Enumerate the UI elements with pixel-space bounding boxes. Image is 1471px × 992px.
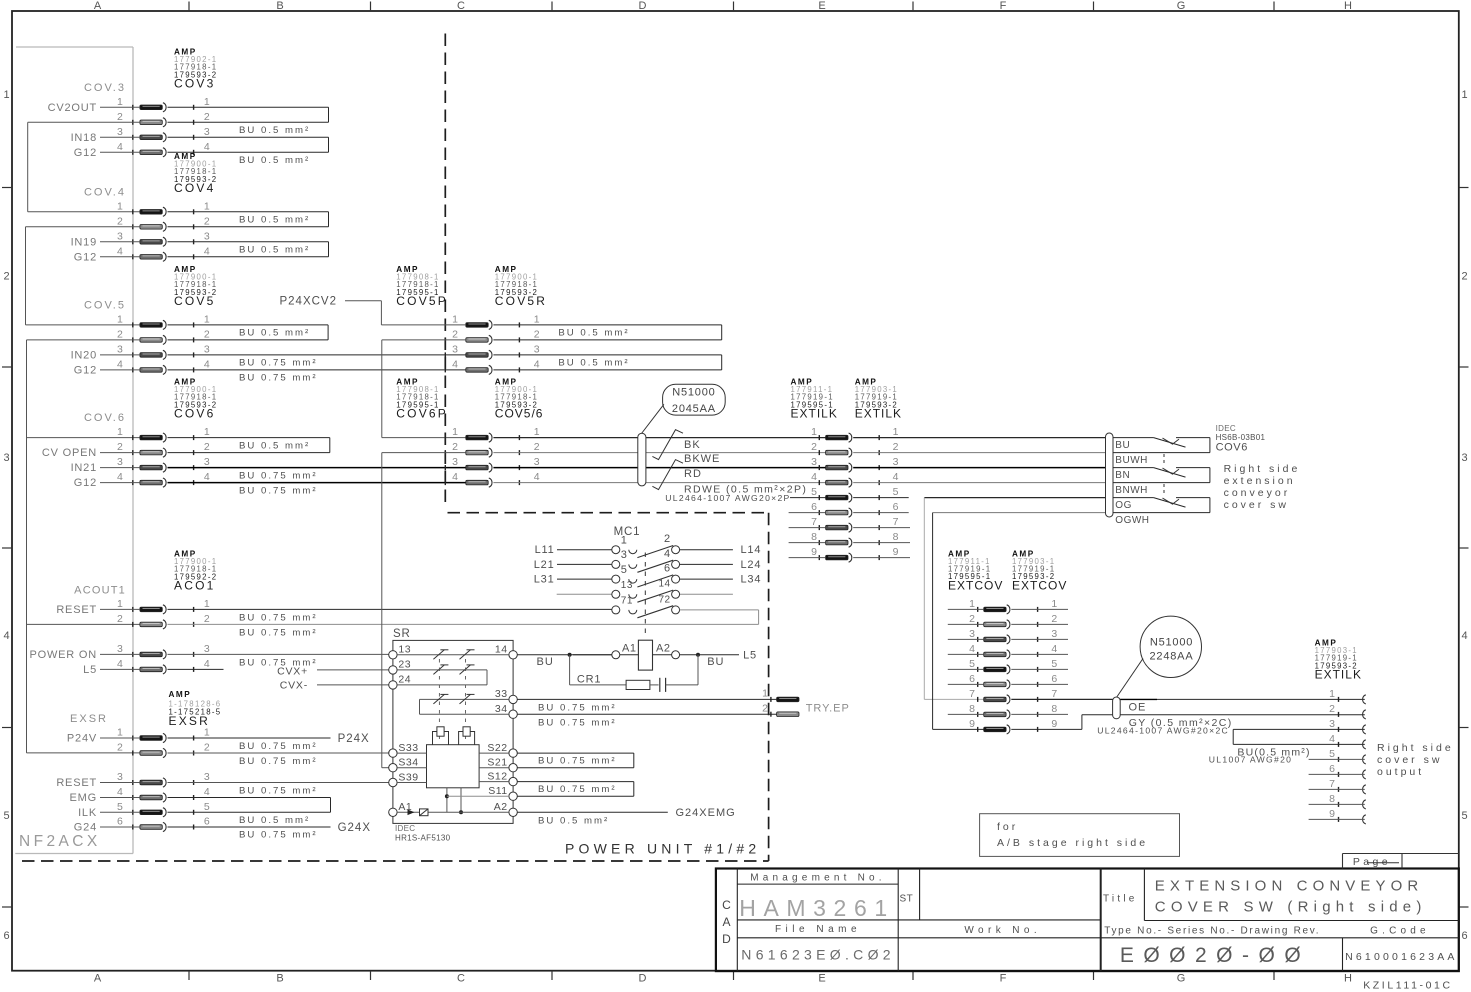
svg-text:1: 1: [534, 313, 540, 325]
svg-text:BU 0.75 mm²: BU 0.75 mm²: [239, 829, 318, 840]
wire G12 to COV3 pin4: [100, 151, 140, 153]
title block drawing title text: [1155, 877, 1427, 915]
connector pair EXTILK / EXTILK (AMP) 9 pins: [791, 378, 903, 563]
wire chain COV4 pin2 to COV5 pin1: [26, 227, 140, 325]
svg-text:5: 5: [1461, 810, 1467, 822]
connector COV5 (AMP) with pins 1-4: [117, 265, 217, 375]
svg-text:COV6: COV6: [174, 407, 215, 421]
net label OE: [1129, 702, 1147, 714]
svg-text:COV.5: COV.5: [84, 300, 126, 312]
connector pair COV6P / COV5/6 (AMP): [396, 378, 543, 488]
svg-text:4: 4: [3, 630, 9, 642]
svg-text:BU 0.5 mm²: BU 0.5 mm²: [239, 815, 310, 826]
label NF2ACX: [19, 833, 101, 850]
net label G24X: [338, 822, 371, 834]
wire net OG riser to EXTCOV pin7: [924, 498, 1105, 700]
relay SR element above module left: [433, 727, 449, 745]
node EMG: [70, 792, 97, 804]
svg-text:4: 4: [117, 786, 123, 798]
svg-text:3: 3: [3, 452, 9, 464]
relay SR wire A1 row with arrow and link symbol: [397, 809, 509, 816]
svg-text:2: 2: [117, 441, 123, 453]
wire EXSR pin1 to net P24X: [168, 737, 331, 739]
svg-text:9: 9: [1329, 808, 1335, 820]
svg-text:G24X: G24X: [338, 822, 371, 834]
wire SR A2 to net G24XEMG: [517, 811, 668, 813]
cable bundle capsule at switch COV6: [1106, 433, 1114, 517]
svg-text:4: 4: [1461, 630, 1467, 642]
switch contact COV6 sw3 (OG/OGWH): [1113, 498, 1210, 513]
svg-text:G12: G12: [74, 477, 97, 489]
wire net BK COV5/6 pin1 to EXTILK pin1: [493, 437, 825, 439]
svg-text:2045AA: 2045AA: [672, 403, 716, 415]
svg-text:3: 3: [117, 771, 123, 783]
svg-text:BU 0.5 mm²: BU 0.5 mm²: [239, 215, 310, 226]
svg-text:3: 3: [621, 549, 628, 561]
svg-text:L11: L11: [535, 544, 555, 556]
svg-text:BU 0.75 mm²: BU 0.75 mm²: [239, 785, 318, 796]
svg-text:EXTCOV: EXTCOV: [948, 578, 1003, 592]
svg-text:P24XCV2: P24XCV2: [279, 295, 337, 307]
wire EXSR pin2 to relay SR S33: [168, 752, 390, 754]
svg-text:33: 33: [495, 688, 508, 700]
wire IN18 to COV3 pin3: [100, 136, 140, 138]
svg-text:COV5P: COV5P: [396, 294, 448, 308]
wire color label BK: [684, 439, 701, 451]
svg-text:Right side: Right side: [1224, 463, 1301, 475]
svg-text:7: 7: [1329, 778, 1335, 790]
wire chain COV5 pin2 / COV6 pin1 / ACO1 pin2 / EXSR pin2: [27, 340, 140, 753]
title block drawing number E0020-00: [1120, 944, 1310, 967]
svg-text:A: A: [722, 915, 730, 929]
wire G12 to COV5 pin4: [100, 369, 140, 371]
net label P24XCV2: [279, 295, 337, 307]
svg-text:A2: A2: [494, 801, 508, 813]
node POWER ON: [29, 649, 97, 661]
title block CAD letters: [722, 898, 731, 946]
dashed box POWER UNIT right edge: [768, 513, 770, 861]
wire color label RDWE (0.5 mm2x2P): [684, 483, 807, 495]
contactor MC1 aux contact 71-72: [612, 594, 680, 618]
svg-text:Management No.: Management No.: [750, 872, 886, 883]
node CV OPEN: [42, 447, 97, 459]
svg-text:HR1S-AF5130: HR1S-AF5130: [395, 834, 451, 843]
svg-text:G: G: [1177, 973, 1186, 985]
svg-text:3: 3: [893, 456, 899, 468]
svg-text:23: 23: [398, 659, 411, 671]
svg-text:IDEC: IDEC: [395, 824, 415, 833]
value label BU 0.5 mm2 (COV3 3-4): [239, 155, 310, 166]
svg-text:3: 3: [117, 126, 123, 138]
value label BU 0.75 mm2 (EXSR pin1): [239, 741, 318, 752]
node G12 (COV5): [74, 364, 97, 376]
svg-text:G12: G12: [74, 147, 97, 159]
svg-text:24: 24: [398, 674, 411, 686]
relay SR right pins 14 33 34 S22 S21 S12 S11 A2: [487, 644, 517, 817]
svg-text:1: 1: [1461, 89, 1467, 101]
title block ST label: [900, 894, 914, 905]
svg-text:CV2OUT: CV2OUT: [48, 102, 97, 114]
svg-text:EXTILK: EXTILK: [791, 407, 838, 421]
svg-text:S11: S11: [488, 785, 507, 797]
svg-text:G.Code: G.Code: [1370, 926, 1430, 937]
svg-text:1: 1: [204, 200, 210, 212]
wire EMG to EXSR pin4: [100, 797, 140, 799]
svg-text:TRY.EP: TRY.EP: [806, 703, 850, 715]
svg-text:3: 3: [1461, 452, 1467, 464]
value label BU 0.5 mm2 (COV6 1-2): [239, 440, 310, 451]
svg-text:BU: BU: [537, 656, 554, 668]
svg-text:OE: OE: [1129, 702, 1147, 714]
svg-text:BU 0.5 mm²: BU 0.5 mm²: [239, 125, 310, 136]
wire ACO1 pin2 return from MC1 contact 72: [168, 623, 759, 625]
svg-text:3: 3: [204, 126, 210, 138]
wire EXSR pin3 to relay SR S39: [168, 782, 390, 784]
wire stub ACO1 pin4: [168, 668, 224, 670]
svg-text:34: 34: [495, 703, 508, 715]
svg-text:Page: Page: [1353, 856, 1391, 868]
wire stubs EXTILK right pins 5-9: [853, 498, 910, 558]
svg-text:POWER ON: POWER ON: [29, 649, 97, 661]
node L34: [741, 574, 762, 586]
svg-text:3: 3: [117, 456, 123, 468]
svg-text:RESET: RESET: [56, 604, 97, 616]
svg-text:S21: S21: [487, 757, 507, 769]
svg-text:BU 0.5 mm²: BU 0.5 mm²: [239, 440, 310, 451]
node L5 (coil): [743, 649, 757, 661]
svg-text:D: D: [639, 0, 647, 12]
label COV.6: [84, 412, 126, 424]
svg-text:7: 7: [811, 516, 817, 528]
svg-text:4: 4: [204, 786, 210, 798]
svg-text:EXSR: EXSR: [70, 713, 108, 725]
node RESET (ACO1): [56, 604, 97, 616]
svg-text:UL2464-1007 AWG#20×2C: UL2464-1007 AWG#20×2C: [1097, 726, 1229, 736]
label COV.3: [84, 82, 126, 94]
value label BU 0.5 mm2 (A2): [538, 816, 609, 827]
junction dot A2 drop: [459, 810, 463, 814]
svg-text:71: 71: [621, 596, 633, 607]
wire CVX- to relay SR pin24: [317, 684, 389, 686]
relay SR internal module box: [427, 745, 480, 788]
node CVX-: [280, 680, 308, 692]
wire CV2OUT to COV3 pin1: [100, 106, 140, 108]
net label P24X: [338, 733, 370, 745]
wire label BU (right of coil): [707, 656, 724, 668]
svg-text:3: 3: [452, 343, 458, 355]
twisted pair mark RD/RDWE: [652, 460, 683, 490]
svg-text:EØØ2Ø-ØØ: EØØ2Ø-ØØ: [1120, 944, 1310, 967]
svg-text:2: 2: [1329, 703, 1335, 715]
wire net OE EXTCOV pin7 to cable marker: [1011, 698, 1112, 700]
svg-text:4: 4: [117, 358, 123, 370]
svg-text:EXTILK: EXTILK: [855, 407, 902, 421]
svg-text:1: 1: [969, 598, 975, 610]
svg-text:2: 2: [204, 613, 210, 625]
wire stubs EXTCOV right pins: [1011, 609, 1068, 714]
wire color label RD: [684, 468, 702, 480]
connector ACO1 (AMP) with pins 1-4: [117, 550, 217, 675]
svg-text:ACO1: ACO1: [174, 579, 215, 593]
svg-text:H: H: [1344, 0, 1352, 12]
svg-text:UL1007 AWG#20: UL1007 AWG#20: [1209, 754, 1292, 764]
junction dot A2 branch: [696, 653, 700, 657]
title block Work No. label: [964, 925, 1041, 936]
svg-text:BU 0.75 mm²: BU 0.75 mm²: [538, 702, 617, 713]
svg-text:2: 2: [534, 441, 540, 453]
wire EXTILK right pins 1-4 to switch cable: [853, 438, 1105, 483]
svg-text:5: 5: [3, 810, 9, 822]
wire loop COV3 pins 1-2 BU 0.5mm2: [168, 107, 329, 122]
svg-text:5: 5: [1051, 658, 1057, 670]
svg-text:L5: L5: [743, 649, 757, 661]
svg-text:D: D: [722, 932, 731, 946]
wire RESET to EXSR pin3: [100, 782, 140, 784]
svg-text:4: 4: [1051, 643, 1057, 655]
svg-text:BU 0.75 mm²: BU 0.75 mm²: [239, 741, 318, 752]
svg-text:EMG: EMG: [70, 792, 97, 804]
cable marker capsule N51000-2248AA: [1113, 697, 1121, 719]
switch linkage dashes: [1163, 454, 1165, 493]
connector COV6 (AMP) with pins 1-4: [117, 378, 217, 488]
value label BU 0.5 mm2 (EXSR 4-5): [239, 815, 310, 826]
wire loop COV4 pins 3-4 BU 0.5mm2: [168, 242, 329, 257]
relay SR linkage dashes: [439, 659, 465, 740]
title block Type No.- Series No.- Drawing Rev. label: [1104, 926, 1320, 937]
svg-text:BU 0.75 mm²: BU 0.75 mm²: [239, 756, 318, 767]
svg-text:IN20: IN20: [71, 349, 97, 361]
wire loop COV6 pins 1-2 BU 0.5mm2: [168, 438, 330, 453]
svg-text:4: 4: [204, 141, 210, 153]
svg-text:L31: L31: [534, 574, 555, 586]
wire POWER ON to ACO1 pin3: [100, 653, 140, 655]
svg-text:Type No.- Series No.- Drawing: Type No.- Series No.- Drawing Rev.: [1104, 926, 1320, 937]
svg-text:BU 0.75 mm²: BU 0.75 mm²: [538, 784, 617, 795]
svg-text:CR1: CR1: [577, 673, 601, 685]
switch contact COV6 sw1 (BU/BUWH): [1113, 438, 1210, 453]
svg-text:A/B stage right side: A/B stage right side: [997, 837, 1148, 849]
net label G24XEMG: [676, 807, 736, 819]
svg-text:output: output: [1377, 766, 1424, 778]
contactor MC1 linkage dashed line: [644, 553, 646, 635]
sheet code KZIL111-01C: [1363, 979, 1453, 991]
wire COV5 pin3 to COV5P pin3 BU 0.75mm2: [168, 354, 466, 356]
svg-text:2: 2: [893, 441, 899, 453]
title block Title label: [1103, 894, 1138, 905]
svg-text:3: 3: [204, 230, 210, 242]
cable label UL2464-1007 AWG20x2P: [665, 493, 790, 503]
value label BU 0.75 mm2 (ACO1 pin2): [239, 627, 318, 638]
value label BU 0.75 mm2 (COV6 pin4): [239, 485, 318, 496]
wire loop COV4 pins 1-2 BU 0.5mm2: [168, 212, 329, 227]
wire G12 net COV6 pin4 to COV6P pin4 BU 0.75mm2: [168, 482, 466, 484]
contactor MC1 coil A1-A2: [573, 640, 739, 670]
svg-text:L24: L24: [741, 559, 762, 571]
value label BU 0.5 mm2 (COV5R 1-2): [558, 328, 629, 339]
svg-text:2: 2: [204, 111, 210, 123]
svg-text:4: 4: [117, 245, 123, 257]
svg-text:4: 4: [969, 643, 975, 655]
wire EXTILK pin5 left stub OG: [790, 497, 826, 499]
node RESET (EXSR): [56, 777, 97, 789]
node G24: [74, 822, 97, 834]
svg-text:1: 1: [3, 89, 9, 101]
value label BU 0.5 mm2 (COV4 1-2): [239, 215, 310, 226]
svg-text:2: 2: [204, 215, 210, 227]
wire IN19 to COV4 pin3: [100, 241, 140, 243]
svg-text:COV4: COV4: [174, 181, 215, 195]
svg-text:L21: L21: [534, 559, 555, 571]
node G12 (COV3): [74, 147, 97, 159]
svg-text:4: 4: [534, 358, 540, 370]
svg-text:3: 3: [452, 456, 458, 468]
relay SR wires S33 S34 S39 into module: [397, 753, 426, 782]
twisted pair mark BK/BKWE: [652, 430, 683, 460]
wire loop COV3 pins 3-4 BU 0.5mm2: [168, 137, 329, 152]
node P24V: [67, 733, 97, 745]
svg-text:1: 1: [117, 727, 123, 739]
wire jumper EXTILK-R pin3 to pin4 BU 0.5mm2: [1233, 729, 1365, 744]
relay SR contact row 13-14: [397, 650, 509, 660]
svg-text:4: 4: [452, 471, 458, 483]
svg-text:6: 6: [117, 816, 123, 828]
value label BU 0.5 mm2 (COV5 1-2): [239, 328, 310, 339]
node L5 (ACO1): [83, 664, 97, 676]
switch contact COV6 sw2 (BN/BNWH): [1113, 468, 1210, 483]
svg-text:L14: L14: [741, 544, 762, 556]
node IN20: [71, 349, 97, 361]
svg-text:2: 2: [204, 328, 210, 340]
svg-text:3: 3: [204, 643, 210, 655]
title block management number HAM3261: [739, 895, 894, 921]
dashed box POWER UNIT bottom edge: [22, 860, 769, 862]
svg-text:F: F: [1000, 0, 1007, 12]
svg-text:N51000: N51000: [1150, 636, 1193, 648]
svg-text:6: 6: [204, 816, 210, 828]
svg-text:4: 4: [1329, 733, 1335, 745]
dashed box POWER UNIT top edge: [448, 512, 769, 514]
note box for A/B stage right side: [980, 814, 1180, 857]
value label BU 0.75 mm2 (33): [538, 702, 617, 713]
enclosure NF2ACX boundary: [15, 47, 133, 854]
svg-text:8: 8: [893, 531, 899, 543]
svg-text:5: 5: [893, 486, 899, 498]
svg-text:A2: A2: [656, 643, 670, 655]
svg-text:1: 1: [204, 96, 210, 108]
svg-text:3: 3: [534, 343, 540, 355]
svg-text:6: 6: [1329, 763, 1335, 775]
node L31: [534, 574, 555, 586]
label COV.5: [84, 300, 126, 312]
svg-text:2: 2: [117, 328, 123, 340]
connector COV3 (AMP) with pins 1-4: [117, 48, 217, 157]
value label BU 0.75 mm2 (S22-S21): [538, 756, 617, 767]
svg-text:2: 2: [1051, 613, 1057, 625]
svg-text:COV5: COV5: [174, 294, 215, 308]
svg-text:3: 3: [117, 230, 123, 242]
svg-text:N51000: N51000: [672, 386, 715, 398]
svg-text:BU 0.75 mm²: BU 0.75 mm²: [538, 756, 617, 767]
contactor MC1 aux contact 13-14: [557, 579, 733, 603]
wire P24V to EXSR pin1: [100, 737, 140, 739]
svg-text:C: C: [457, 973, 465, 985]
wire EXSR pin6 to net G24X: [168, 826, 331, 828]
balloon N51000 2045AA: [642, 384, 726, 433]
svg-text:N61623EØ.CØ2: N61623EØ.CØ2: [741, 947, 895, 963]
cable label GY (0.5 mm2x2C): [1129, 717, 1233, 729]
svg-text:1: 1: [452, 313, 458, 325]
svg-text:EXTILK: EXTILK: [1315, 668, 1362, 682]
node L14: [741, 544, 762, 556]
svg-text:BU: BU: [707, 656, 724, 668]
label Right side extension conveyor cover sw: [1224, 463, 1301, 511]
svg-text:G12: G12: [74, 251, 97, 263]
node ILK: [78, 807, 97, 819]
title block G.Code label: [1370, 926, 1430, 937]
svg-text:14: 14: [495, 644, 508, 656]
svg-text:cover sw: cover sw: [1377, 754, 1442, 766]
svg-text:G: G: [1177, 0, 1186, 12]
svg-text:L34: L34: [741, 574, 762, 586]
svg-text:72: 72: [658, 594, 670, 605]
svg-text:for: for: [997, 821, 1018, 833]
svg-text:3: 3: [204, 456, 210, 468]
svg-text:4: 4: [117, 141, 123, 153]
wire net OE cable to EXTILK-R pin1: [1120, 698, 1365, 700]
label ACOUT1: [74, 585, 126, 597]
component label IDEC HR1S-AF5130: [395, 824, 451, 843]
svg-text:5: 5: [621, 564, 628, 576]
contactor MC1 label: [614, 526, 641, 538]
svg-text:1: 1: [534, 426, 540, 438]
svg-text:BU 0.5 mm²: BU 0.5 mm²: [239, 328, 310, 339]
svg-text:5: 5: [811, 486, 817, 498]
svg-text:C: C: [457, 0, 465, 12]
contactor MC1 contact 1-2 (L11-L14): [557, 533, 733, 558]
svg-text:8: 8: [811, 531, 817, 543]
title block g-code N610001623AA: [1345, 951, 1458, 963]
wire IN21 to COV6 pin3: [100, 467, 140, 469]
label POWER UNIT #1/#2: [565, 841, 760, 857]
label Right side cover sw output: [1377, 742, 1454, 778]
wire loop COV5R pins 3-4 BU 0.5mm2: [493, 355, 721, 370]
svg-text:SR: SR: [393, 628, 411, 640]
wire net RDWE COV5/6 pin4 to EXTILK pin4: [493, 482, 825, 484]
svg-text:CVX-: CVX-: [280, 680, 308, 692]
svg-text:1: 1: [117, 313, 123, 325]
svg-text:COV5R: COV5R: [495, 294, 547, 308]
svg-text:CV OPEN: CV OPEN: [42, 447, 97, 459]
svg-text:S22: S22: [487, 742, 507, 754]
svg-text:S12: S12: [487, 770, 507, 782]
wire stubs EXTILK right-side pins 5-9: [1309, 759, 1365, 819]
svg-text:2: 2: [664, 533, 671, 545]
svg-text:BU 0.75 mm²: BU 0.75 mm²: [239, 485, 318, 496]
svg-text:F: F: [1000, 973, 1007, 985]
wire loop EXSR pins 4-5 BU 0.5mm2: [168, 798, 331, 813]
wire IN20 to COV5 pin3: [100, 354, 140, 356]
value label BU 0.75 mm2 (COV6 pin3): [239, 470, 318, 481]
svg-text:2: 2: [204, 441, 210, 453]
svg-text:COV.6: COV.6: [84, 412, 126, 424]
svg-text:IDEC: IDEC: [1216, 424, 1236, 433]
svg-text:A: A: [94, 973, 102, 985]
value label BU 0.5 mm2 (COV5R 3-4): [558, 358, 629, 369]
svg-text:POWER UNIT #1/#2: POWER UNIT #1/#2: [565, 841, 760, 857]
wire RESET to ACO1 pin1: [100, 608, 140, 610]
svg-text:4: 4: [664, 548, 671, 560]
node IN19: [71, 236, 97, 248]
